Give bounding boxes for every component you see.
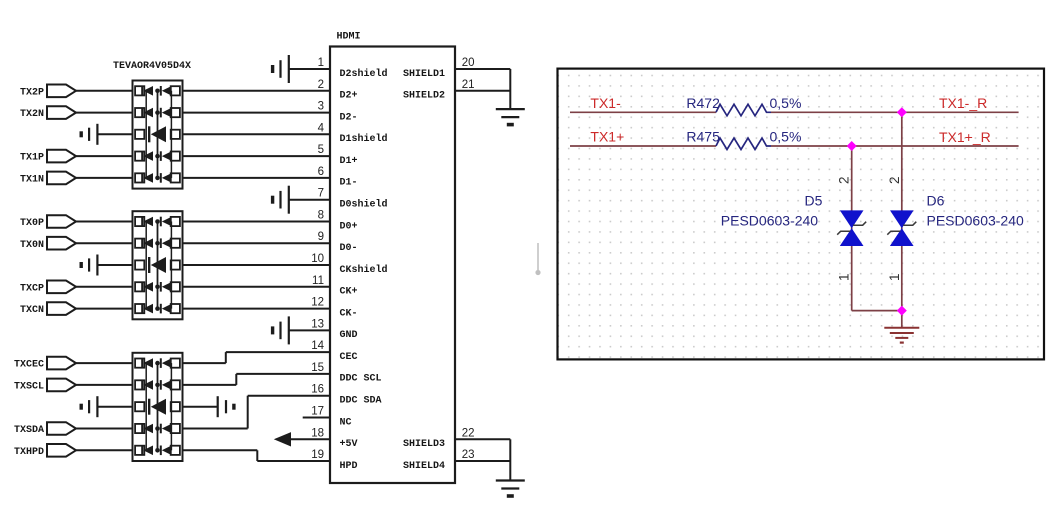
svg-text:TX1P: TX1P [20, 153, 44, 164]
svg-text:TXHPD: TXHPD [14, 447, 44, 458]
svg-text:12: 12 [311, 297, 324, 309]
svg-text:23: 23 [462, 449, 475, 461]
svg-text:22: 22 [462, 427, 475, 439]
svg-text:19: 19 [311, 449, 324, 461]
svg-text:D0+: D0+ [340, 221, 358, 232]
svg-text:7: 7 [318, 188, 324, 200]
svg-text:11: 11 [312, 275, 324, 287]
svg-text:TX0N: TX0N [20, 240, 44, 251]
svg-text:TXSCL: TXSCL [14, 382, 44, 393]
svg-text:CKshield: CKshield [340, 264, 388, 276]
svg-text:D1+: D1+ [340, 156, 358, 167]
svg-text:2: 2 [887, 176, 902, 184]
svg-text:CEC: CEC [340, 352, 358, 363]
svg-text:1: 1 [837, 273, 852, 281]
svg-text:D2+: D2+ [340, 91, 358, 102]
svg-text:TX1-_R: TX1-_R [939, 95, 987, 111]
svg-text:D1shield: D1shield [340, 133, 388, 145]
svg-text:HDMI: HDMI [337, 32, 361, 43]
svg-text:TX1N: TX1N [20, 175, 44, 186]
svg-text:1: 1 [318, 57, 324, 69]
svg-text:TXCP: TXCP [20, 283, 44, 294]
svg-text:D5: D5 [805, 193, 823, 209]
svg-text:D0shield: D0shield [340, 199, 388, 211]
svg-text:6: 6 [318, 166, 324, 178]
svg-text:14: 14 [311, 340, 324, 352]
svg-text:21: 21 [462, 79, 475, 91]
svg-text:TX1-: TX1- [590, 95, 621, 111]
svg-text:GND: GND [340, 330, 358, 341]
svg-text:R475: R475 [686, 129, 720, 145]
svg-text:R472: R472 [686, 95, 720, 111]
svg-text:TXSDA: TXSDA [14, 425, 44, 436]
svg-text:TEVAOR4V05D4X: TEVAOR4V05D4X [113, 61, 191, 72]
svg-text:4: 4 [318, 122, 325, 134]
svg-text:+5V: +5V [340, 439, 358, 450]
svg-text:13: 13 [311, 318, 324, 330]
svg-text:10: 10 [311, 253, 324, 265]
svg-text:CK+: CK+ [340, 287, 358, 298]
svg-text:D0-: D0- [340, 243, 358, 254]
svg-text:D1-: D1- [340, 178, 358, 189]
svg-text:20: 20 [462, 57, 475, 69]
svg-text:NC: NC [340, 417, 352, 428]
svg-text:HPD: HPD [340, 461, 358, 472]
svg-text:TX0P: TX0P [20, 218, 44, 229]
svg-text:TX1+: TX1+ [590, 129, 624, 145]
svg-text:2: 2 [318, 79, 324, 91]
svg-text:TXCEC: TXCEC [14, 360, 44, 371]
svg-text:D6: D6 [927, 193, 945, 209]
svg-text:16: 16 [311, 384, 324, 396]
svg-text:CK-: CK- [340, 308, 358, 319]
svg-text:PESD0603-240: PESD0603-240 [927, 212, 1025, 228]
svg-text:TX1+_R: TX1+_R [939, 129, 991, 145]
svg-text:DDC SDA: DDC SDA [340, 396, 382, 407]
svg-text:TX2N: TX2N [20, 109, 44, 120]
svg-text:3: 3 [318, 101, 324, 113]
svg-text:0,5%: 0,5% [770, 95, 802, 111]
svg-text:17: 17 [311, 406, 324, 418]
svg-text:DDC SCL: DDC SCL [340, 374, 382, 385]
svg-text:TX2P: TX2P [20, 87, 44, 98]
svg-text:SHIELD1: SHIELD1 [403, 69, 445, 80]
svg-text:PESD0603-240: PESD0603-240 [721, 212, 819, 228]
svg-text:D2shield: D2shield [340, 68, 388, 80]
svg-text:0,5%: 0,5% [770, 129, 802, 145]
svg-text:5: 5 [318, 144, 324, 156]
svg-text:15: 15 [311, 362, 324, 374]
svg-text:18: 18 [311, 427, 324, 439]
svg-text:D2-: D2- [340, 112, 358, 123]
svg-text:1: 1 [887, 273, 902, 281]
svg-text:8: 8 [318, 210, 324, 222]
svg-text:SHIELD4: SHIELD4 [403, 461, 445, 472]
svg-text:SHIELD2: SHIELD2 [403, 91, 445, 102]
svg-text:2: 2 [837, 176, 852, 184]
svg-text:SHIELD3: SHIELD3 [403, 439, 445, 450]
svg-text:9: 9 [318, 231, 324, 243]
svg-text:TXCN: TXCN [20, 305, 44, 316]
